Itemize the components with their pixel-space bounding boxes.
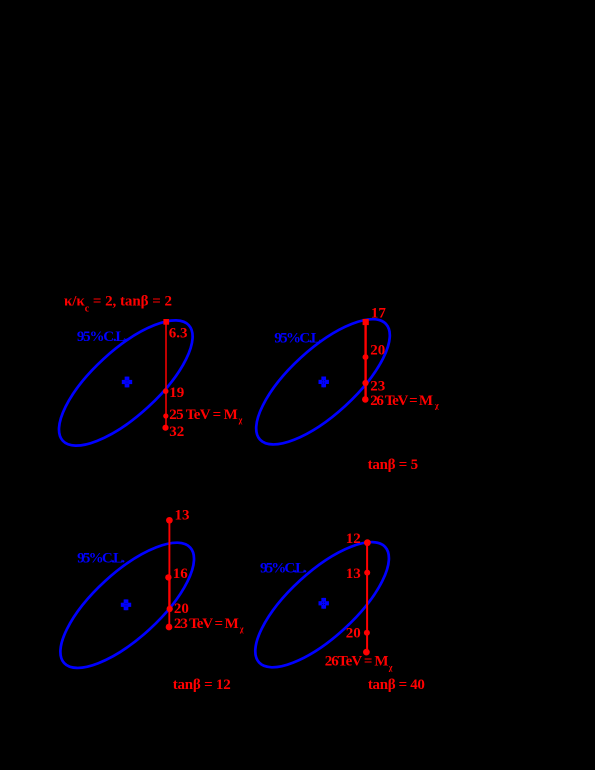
svg-text:tanβ = 5: tanβ = 5 [368,457,419,473]
panel 3 center cross [121,599,131,610]
panel 4 point 13 [364,570,370,576]
svg-text:20: 20 [370,343,385,359]
panel 1 center cross [122,377,132,388]
panel 1 point 25 [163,413,168,418]
panel 1 (top-left): 95% C.L. ellipse [41,301,211,465]
svg-text:16: 16 [173,566,189,582]
svg-text:17: 17 [371,305,387,321]
svg-text:26 TeV = M: 26 TeV = M [370,393,433,409]
svg-text:95%C.L.: 95%C.L. [77,551,125,567]
svg-text:23: 23 [370,379,385,395]
panel 3 point 20 [167,606,173,612]
svg-text:χ: χ [434,401,439,410]
svg-text:95%C.L.: 95%C.L. [260,561,307,577]
svg-text:13: 13 [346,566,361,582]
svg-text:tanβ = 40: tanβ = 40 [368,677,425,693]
svg-text:25 TeV = M: 25 TeV = M [169,407,238,423]
panel 2 center cross [319,377,329,388]
svg-text:95%C.L.: 95%C.L. [274,330,323,346]
panel 4 red error line [366,543,368,652]
panel 2 top square marker [363,319,369,325]
panel 3 point 13 (top) [166,517,173,524]
panel 1 red error line [165,322,167,428]
panel 3 point 16 [165,574,171,580]
panel 2 red error line [364,322,366,399]
svg-text:6.3: 6.3 [169,326,188,342]
svg-text:32: 32 [169,424,184,440]
panel 1 top square marker [163,319,169,325]
panel 4 (bottom-right): 95% C.L. ellipse [237,523,407,687]
panel 4 point 26 (bottom) [363,649,370,656]
svg-text:χ: χ [239,625,244,634]
panel 4 point 12 (top) [364,539,371,546]
panel 3 (bottom-left): 95% C.L. ellipse [42,523,212,687]
panel 4 point 20 [364,630,370,636]
svg-text:20: 20 [346,626,361,642]
svg-text:26TeV = M: 26TeV = M [325,653,389,669]
svg-text:23 TeV = M: 23 TeV = M [174,616,239,632]
svg-text:tanβ = 12: tanβ = 12 [173,677,231,693]
svg-text:χ: χ [388,663,393,672]
svg-text:χ: χ [238,416,243,425]
svg-text:20: 20 [174,601,189,617]
svg-text:12: 12 [346,531,361,547]
panel 3 point 23 (bottom) [166,624,173,631]
panel 2 point 26 [362,396,369,403]
panel 2 point 20 [363,354,369,360]
panel 2 point 23 [362,380,368,386]
panel 4 center cross [319,598,329,609]
panel 2 (top-right): 95% C.L. ellipse [238,300,408,464]
svg-text:19: 19 [169,385,184,401]
panel 3 red error line [168,520,170,627]
svg-text:95%C.L.: 95%C.L. [77,329,128,345]
panel 1 point 32 [162,425,168,431]
svg-text:13: 13 [175,507,190,523]
panel 1 point 19 [163,388,169,394]
